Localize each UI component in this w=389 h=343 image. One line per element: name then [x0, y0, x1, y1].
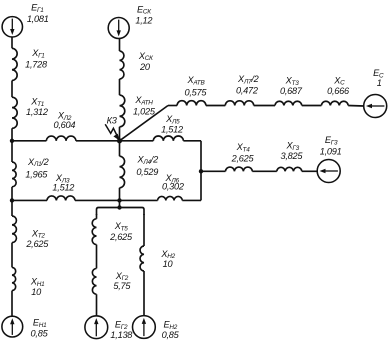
svg-text:0,604: 0,604	[54, 120, 76, 130]
svg-text:XЛ7/2: XЛ7/2	[237, 74, 259, 85]
source EН1	[2, 316, 49, 338]
svg-text:0,302: 0,302	[162, 182, 184, 192]
node lower bus / middle vertical	[117, 198, 121, 202]
reactor XСК	[120, 51, 155, 79]
svg-text:1,025: 1,025	[133, 106, 156, 116]
svg-text:1,312: 1,312	[26, 107, 48, 117]
wire lower bus mid	[75, 199, 120, 201]
wire upper chain segment 4	[302, 105, 322, 107]
reactor XЛ1/2	[12, 157, 49, 187]
source EГ3	[317, 135, 341, 183]
wire rectangle right vertical	[200, 141, 202, 201]
wire middle vertical to stub	[119, 200, 121, 207]
short-circuit marker К3	[105, 116, 120, 141]
svg-text:XСК: XСК	[138, 51, 154, 62]
reactor XЛ6	[158, 173, 184, 200]
reactor XТ3	[275, 76, 303, 106]
svg-text:XГ1: XГ1	[31, 48, 45, 59]
svg-text:XС: XС	[333, 75, 345, 86]
wire middle vertical top	[119, 39, 121, 141]
svg-text:3,825: 3,825	[281, 151, 304, 161]
wire bottom branch 2 vertical	[143, 214, 145, 316]
svg-text:1,081: 1,081	[27, 14, 49, 24]
reactor XЛ4/2	[120, 141, 159, 201]
svg-text:1,965: 1,965	[25, 169, 48, 179]
wire mid chain segment 2	[252, 170, 276, 172]
wire XЛ6 to right corner	[182, 199, 201, 201]
reactor XТ1	[12, 97, 48, 129]
node left bus / main bus	[10, 139, 14, 143]
source EС	[364, 68, 387, 117]
svg-text:XТ2: XТ2	[31, 228, 46, 239]
reactor XГ1	[12, 48, 48, 81]
svg-text:2,625: 2,625	[25, 239, 49, 249]
source EГ2	[85, 316, 133, 340]
wire upper chain segment 1	[168, 105, 177, 107]
wire mid chain segment 1	[201, 170, 226, 172]
svg-text:XТ5: XТ5	[114, 221, 129, 232]
svg-text:EГ3: EГ3	[325, 135, 338, 146]
reactor XЛ3	[47, 173, 75, 201]
svg-text:0,575: 0,575	[185, 88, 208, 98]
reactor XТ4	[226, 142, 255, 171]
svg-text:1,091: 1,091	[320, 146, 342, 156]
wire left bus vertical	[11, 37, 13, 316]
svg-text:2,625: 2,625	[109, 232, 133, 242]
svg-text:20: 20	[139, 62, 151, 72]
svg-text:EСК: EСК	[137, 4, 152, 15]
node mid chain tap	[199, 169, 203, 173]
node К3 fault junction	[117, 138, 122, 143]
reactor XЛ7/2	[225, 74, 258, 106]
svg-text:2,625: 2,625	[231, 154, 255, 164]
svg-text:1,512: 1,512	[52, 183, 74, 193]
svg-text:К3: К3	[107, 116, 118, 126]
reactor XТ2	[12, 216, 49, 249]
svg-text:EГ1: EГ1	[31, 3, 44, 14]
wire upper chain segment 2	[206, 105, 225, 107]
svg-text:5,75: 5,75	[113, 281, 131, 291]
reactor XГ2	[92, 268, 131, 294]
svg-text:XАТН: XАТН	[134, 95, 153, 106]
svg-text:XАТВ: XАТВ	[187, 75, 206, 86]
source EН2	[133, 316, 180, 340]
reactor XАТН	[120, 95, 156, 127]
svg-text:0,529: 0,529	[136, 167, 158, 177]
svg-text:1,728: 1,728	[25, 60, 48, 70]
wire upper chain segment 3	[254, 105, 275, 107]
svg-text:10: 10	[31, 287, 42, 297]
reactor XГ3	[277, 140, 304, 171]
node stub junction	[117, 205, 121, 209]
svg-text:1,12: 1,12	[135, 15, 152, 25]
wire stub horizontal	[97, 208, 145, 216]
wire XЛ5 branch	[120, 140, 154, 142]
reactor XАТВ	[177, 75, 207, 106]
svg-text:XТ4: XТ4	[236, 142, 251, 153]
wire main bus mid	[76, 140, 120, 142]
svg-text:0,687: 0,687	[280, 86, 303, 96]
wire mid chain segment 3	[302, 170, 317, 172]
svg-text:0,85: 0,85	[31, 328, 49, 338]
wire bottom branch 1 vertical	[96, 214, 98, 316]
reactor XЛ5	[153, 114, 183, 141]
svg-text:1,512: 1,512	[161, 125, 183, 135]
node left bus / lower bus	[10, 198, 14, 202]
wire main bus left	[12, 140, 46, 142]
svg-text:0,85: 0,85	[162, 330, 180, 340]
wire upper chain segment 5	[348, 105, 364, 108]
reactor XС	[321, 75, 350, 105]
svg-text:1: 1	[377, 78, 382, 88]
svg-text:1,138: 1,138	[110, 330, 133, 340]
reactor XЛ2	[46, 111, 75, 141]
svg-text:XЛ4/2: XЛ4/2	[136, 155, 158, 166]
svg-text:0,472: 0,472	[236, 86, 258, 96]
wire diagonal to upper chain	[120, 106, 169, 141]
svg-text:EН1: EН1	[33, 317, 47, 328]
reactor XН1	[12, 267, 45, 296]
reactor XТ5	[92, 219, 133, 245]
reactor XН2	[140, 246, 176, 271]
svg-text:0,666: 0,666	[327, 86, 350, 96]
wire XЛ6 branch	[120, 199, 158, 201]
svg-text:XЛ1/2: XЛ1/2	[27, 157, 49, 168]
wire lower bus left	[12, 199, 47, 201]
source EГ1	[2, 3, 49, 37]
wire XЛ5 to right corner	[183, 140, 201, 142]
source EСК	[108, 4, 152, 38]
svg-text:10: 10	[163, 259, 174, 269]
